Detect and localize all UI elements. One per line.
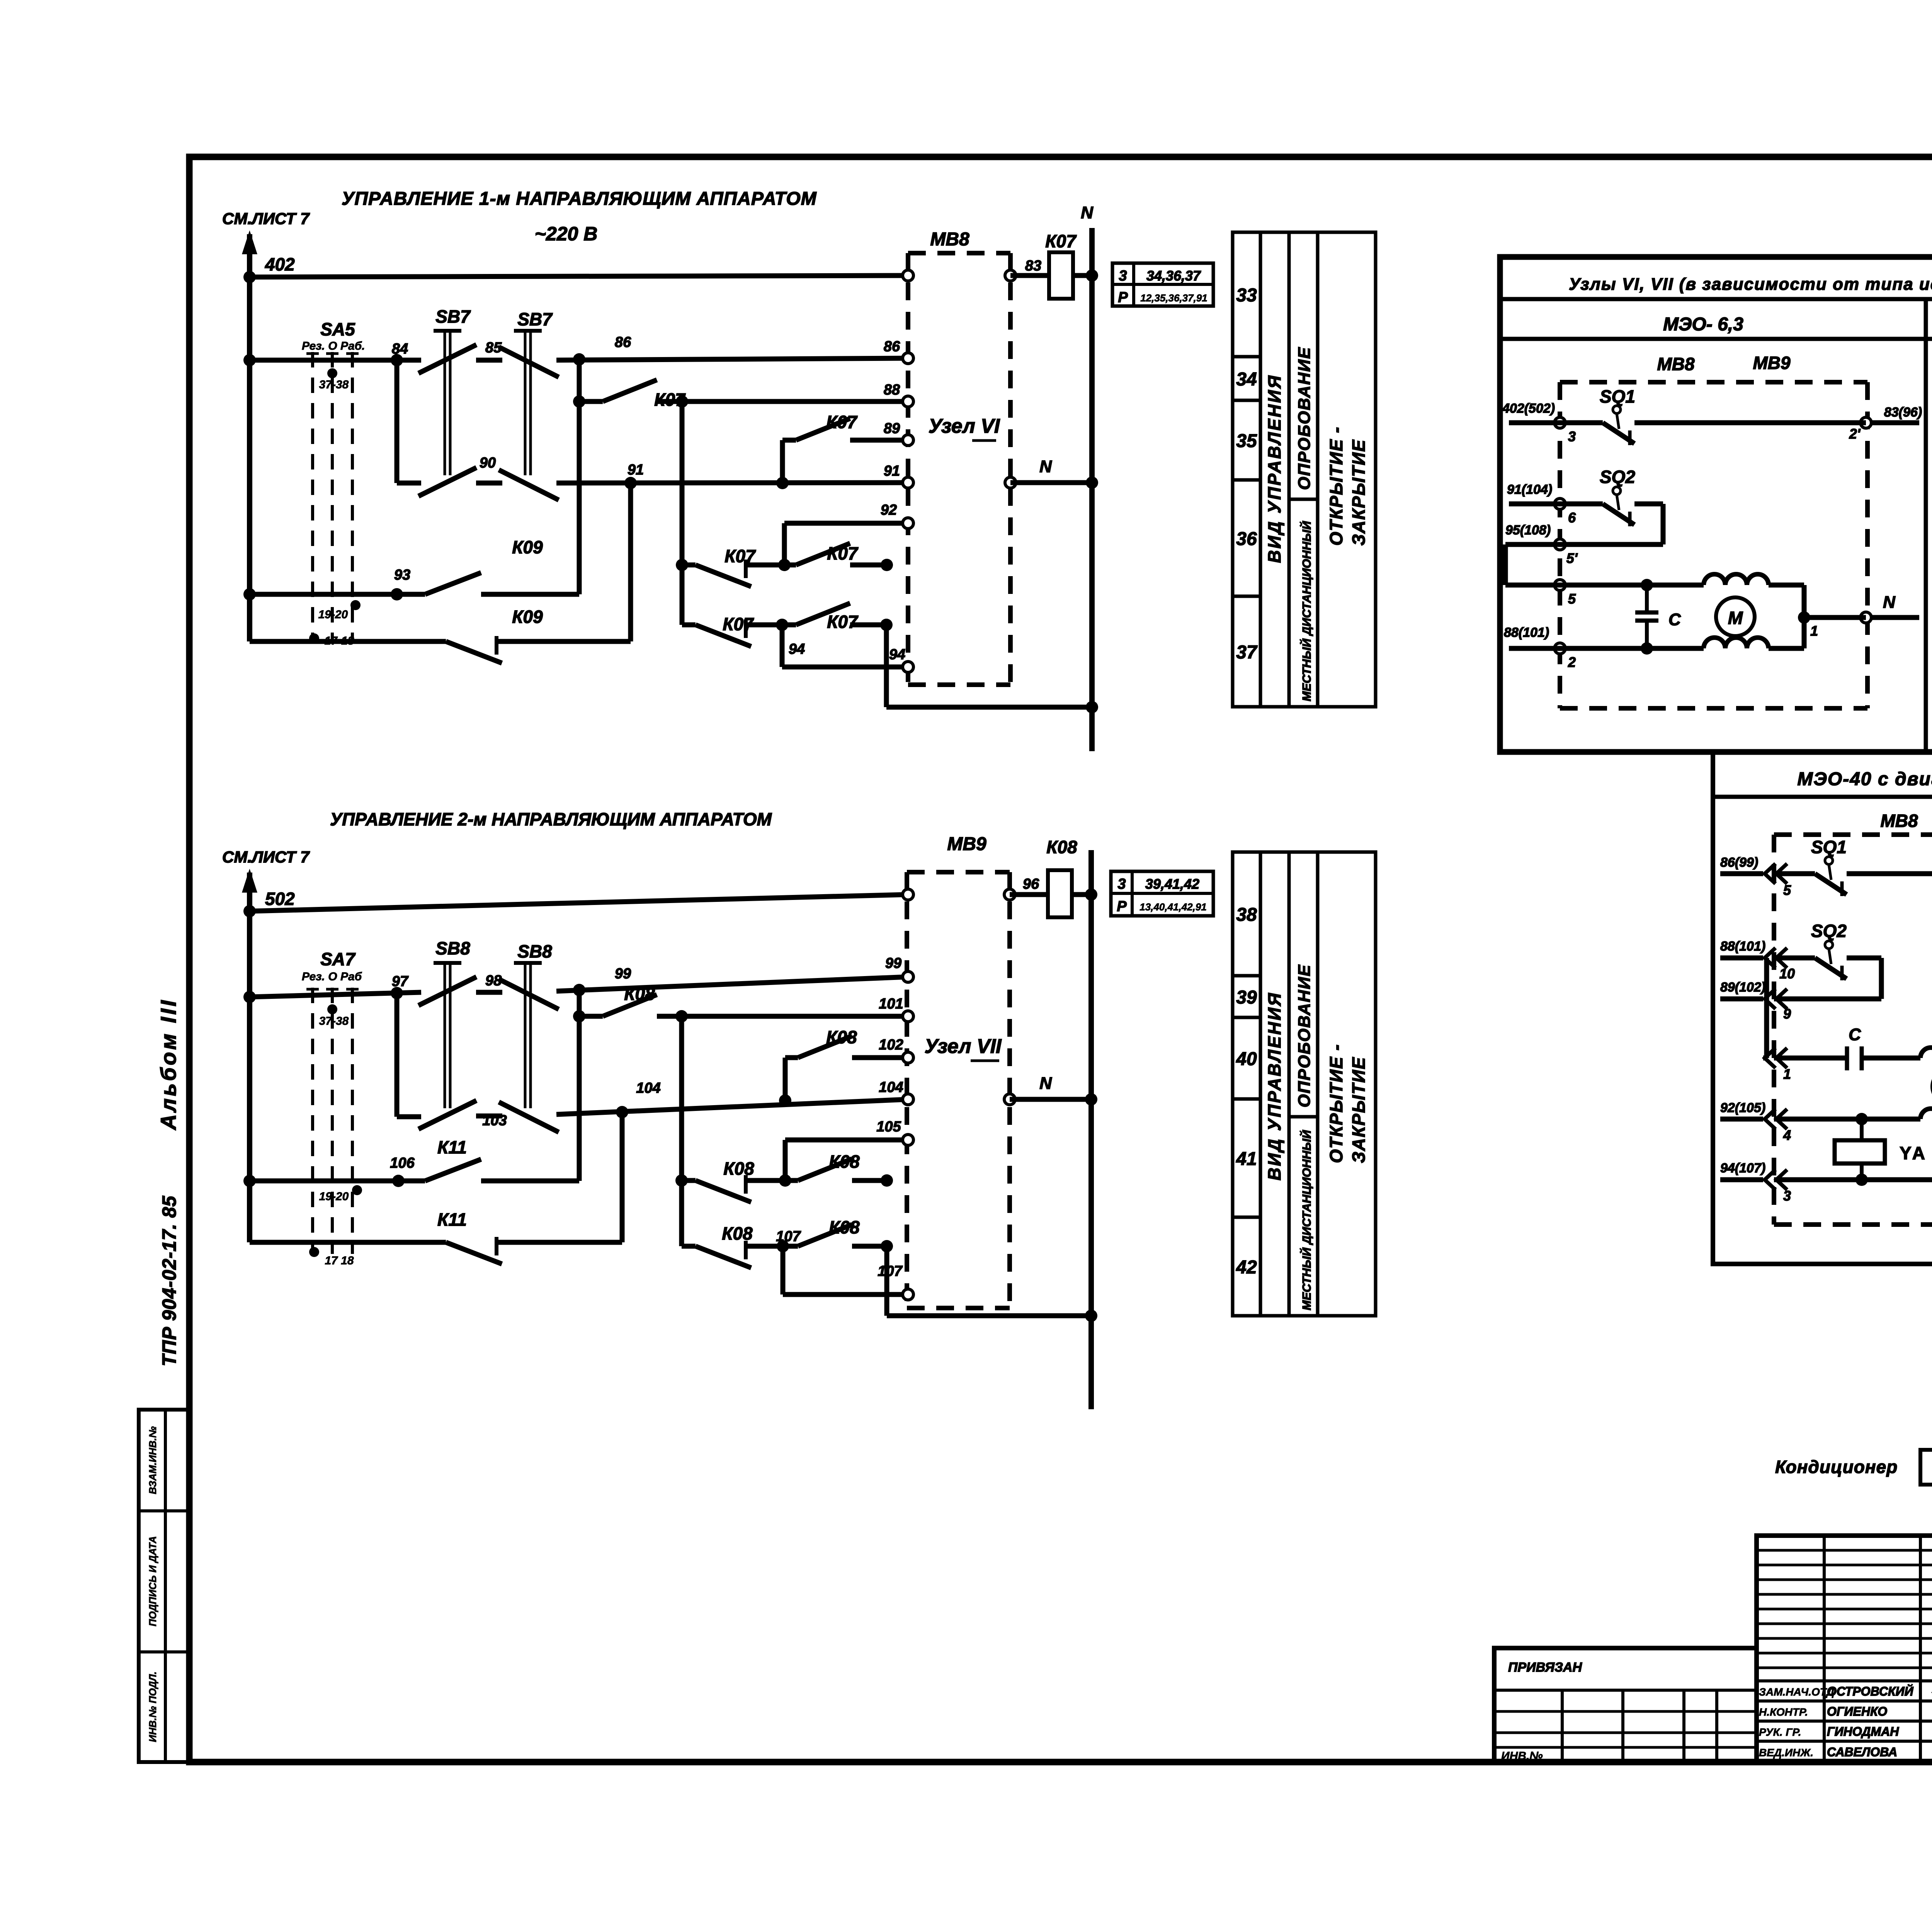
svg-text:К09: К09 [512, 537, 543, 557]
svg-text:YA: YA [1900, 1143, 1927, 1163]
svg-text:Узлы VI, VII (в зависимости: Узлы VI, VII (в зависимости от типа испо… [1569, 275, 1932, 294]
row F 93 contact K09 [250, 592, 425, 597]
N row from box 2 [1010, 1097, 1091, 1102]
svg-text:СМ.ЛИСТ 7: СМ.ЛИСТ 7 [222, 848, 310, 866]
bottom rail to N bus [886, 705, 1092, 710]
svg-text:86: 86 [615, 334, 631, 350]
svg-text:К11: К11 [437, 1209, 467, 1230]
svg-text:Р: Р [1117, 898, 1127, 915]
svg-text:К08: К08 [723, 1158, 754, 1179]
svg-text:4: 4 [1783, 1127, 1791, 1143]
svg-text:ЗАКРЫТИЕ: ЗАКРЫТИЕ [1349, 439, 1369, 546]
feeder bus arrow up [247, 234, 252, 641]
svg-text:102: 102 [879, 1037, 903, 1053]
svg-text:МВ9: МВ9 [947, 834, 986, 854]
svg-text:94(107): 94(107) [1720, 1161, 1765, 1175]
row C2 101: contact K08 [579, 1014, 603, 1019]
wire row B 84-85-86 [250, 358, 421, 363]
wire row B2 97-98-99 [250, 992, 421, 997]
svg-text:С: С [1849, 1025, 1861, 1044]
svg-text:33: 33 [1236, 285, 1257, 306]
svg-text:1: 1 [1783, 1066, 1791, 1082]
svg-text:99: 99 [885, 955, 901, 971]
svg-text:103: 103 [482, 1112, 507, 1129]
svg-text:2: 2 [1568, 654, 1576, 670]
svg-text:3: 3 [1119, 268, 1127, 284]
svg-text:104: 104 [879, 1079, 903, 1095]
svg-text:Н.КОНТР.: Н.КОНТР. [1759, 1706, 1808, 1718]
svg-text:ОСТРОВСКИЙ: ОСТРОВСКИЙ [1827, 1684, 1914, 1698]
svg-text:К09: К09 [512, 607, 543, 627]
limit switch SQ1 cell1 [1560, 420, 1603, 425]
svg-text:N: N [1081, 203, 1094, 222]
feeder bus arrow up 2 [247, 873, 252, 1242]
svg-text:~220 В: ~220 В [535, 223, 598, 245]
svg-text:39: 39 [1236, 987, 1257, 1008]
svg-text:SB8: SB8 [435, 938, 470, 958]
limit switch SQ2 cell1 [1560, 502, 1603, 507]
svg-text:МВ8: МВ8 [1880, 811, 1918, 831]
big box Uzly VI VII [1500, 257, 1932, 752]
Konditsioner empty box [1920, 1450, 1932, 1485]
svg-text:МВ9: МВ9 [1753, 353, 1791, 373]
svg-text:Рез. О Раб.: Рез. О Раб. [302, 340, 365, 352]
signal table column frame [1233, 852, 1260, 1316]
svg-text:ВЕД.ИНЖ.: ВЕД.ИНЖ. [1759, 1747, 1813, 1759]
DAU row 94 [1774, 1177, 1932, 1182]
svg-text:ПОДПИСЬ И ДАТА: ПОДПИСЬ И ДАТА [147, 1536, 158, 1626]
DAU dashed unit box [1774, 832, 1932, 837]
N bus schematic 2 [1088, 850, 1094, 1409]
svg-text:101: 101 [879, 996, 903, 1012]
wire to N cell1 [1804, 615, 1866, 620]
svg-text:10: 10 [1779, 966, 1795, 981]
row E2 103/104 [397, 1114, 421, 1119]
svg-text:Узел VI: Узел VI [929, 415, 1000, 437]
svg-text:К08: К08 [722, 1223, 753, 1243]
svg-text:ОПРОБОВАНИЕ: ОПРОБОВАНИЕ [1295, 964, 1314, 1107]
svg-text:105: 105 [876, 1119, 901, 1135]
svg-text:Узел VII: Узел VII [924, 1035, 1002, 1058]
svg-text:К08: К08 [1046, 837, 1077, 857]
svg-text:107: 107 [776, 1228, 801, 1245]
svg-text:42: 42 [1236, 1257, 1257, 1278]
svg-text:SQ1: SQ1 [1600, 386, 1635, 407]
svg-text:92(105): 92(105) [1720, 1101, 1765, 1115]
drop to bottom rail 2 [884, 1246, 889, 1316]
SQ2 loop to 5prime [1634, 502, 1663, 507]
svg-text:19-20: 19-20 [318, 608, 348, 621]
drop 88 junction to lower ladder [680, 401, 685, 625]
row 5 with upper winding [1560, 583, 1704, 588]
svg-text:86(99): 86(99) [1720, 855, 1758, 870]
svg-text:ВИД УПРАВЛЕНИЯ: ВИД УПРАВЛЕНИЯ [1264, 374, 1284, 563]
svg-text:УПРАВЛЕНИЕ 1-м НАПРАВЛЯЮЩИМ: УПРАВЛЕНИЕ 1-м НАПРАВЛЯЮЩИМ АППАРАТОМ [342, 189, 817, 209]
svg-text:94: 94 [789, 641, 805, 657]
svg-text:6: 6 [1568, 510, 1576, 526]
svg-text:88(101): 88(101) [1504, 625, 1549, 640]
svg-text:ОПРОБОВАНИЕ: ОПРОБОВАНИЕ [1295, 347, 1314, 490]
svg-text:РУК. ГР.: РУК. ГР. [1759, 1726, 1801, 1738]
subdivision line in probe column [1289, 1115, 1318, 1119]
svg-text:502: 502 [265, 889, 295, 909]
svg-text:93: 93 [394, 567, 410, 583]
svg-text:5: 5 [1568, 591, 1576, 607]
svg-text:13,40,41,42,91: 13,40,41,42,91 [1139, 901, 1207, 913]
svg-text:17-18: 17-18 [325, 634, 354, 647]
external U 5prime to 5 [1505, 542, 1560, 547]
svg-text:САВЕЛОВА: САВЕЛОВА [1827, 1745, 1897, 1759]
svg-text:107: 107 [878, 1263, 903, 1279]
svg-text:2': 2' [1849, 426, 1861, 442]
svg-text:37-38: 37-38 [319, 378, 349, 391]
svg-text:92: 92 [881, 502, 897, 518]
drop to bottom rail [884, 625, 889, 707]
svg-text:94: 94 [889, 646, 905, 663]
svg-text:3: 3 [1783, 1188, 1791, 1204]
svg-text:91: 91 [884, 463, 900, 479]
svg-text:С: С [1668, 610, 1681, 629]
svg-text:35: 35 [1236, 431, 1257, 451]
wire 105 to box [785, 1138, 908, 1143]
svg-text:104: 104 [636, 1080, 660, 1096]
drop 101 junction to lower ladder 2 [679, 1016, 684, 1246]
svg-text:SA7: SA7 [320, 949, 356, 969]
svg-text:ГИНОДМАН: ГИНОДМАН [1827, 1725, 1899, 1738]
svg-text:91(104): 91(104) [1507, 482, 1552, 497]
title block [1757, 1536, 1932, 1762]
svg-text:89: 89 [884, 420, 900, 437]
row I2 107 contacts [682, 1244, 696, 1249]
svg-text:К07: К07 [827, 612, 859, 632]
svg-text:3: 3 [1568, 429, 1576, 444]
capacitor C cell1 [1645, 585, 1649, 612]
svg-text:ВЗАМ.ИНВ.№: ВЗАМ.ИНВ.№ [147, 1426, 158, 1494]
19-20 mark 2 [352, 1185, 362, 1195]
svg-text:Р: Р [1118, 289, 1128, 306]
DAU terminals left [1776, 864, 1787, 884]
subdivision line in probe column [1289, 498, 1318, 501]
svg-text:Рез. О Раб: Рез. О Раб [302, 970, 362, 983]
left margin stamp boxes [139, 1410, 189, 1762]
svg-text:SQ2: SQ2 [1600, 467, 1635, 487]
drawing frame border [189, 157, 1932, 1762]
svg-text:99: 99 [615, 966, 631, 982]
terminals MEO-6,3 [1554, 417, 1565, 428]
svg-text:N: N [1883, 593, 1896, 612]
wire drop 97 to row E2 [395, 993, 400, 1117]
wire 92 to box [784, 521, 908, 526]
19-20 mark [350, 600, 361, 610]
svg-text:SB7: SB7 [517, 309, 553, 329]
row H2 105 contacts K08 K08 [675, 1174, 688, 1187]
svg-text:ЗАМ.НАЧ.ОТД: ЗАМ.НАЧ.ОТД [1759, 1686, 1834, 1698]
YA brake solenoid [1835, 1140, 1885, 1163]
svg-text:36: 36 [1236, 529, 1257, 549]
svg-text:МВ8: МВ8 [930, 229, 969, 250]
svg-text:SB8: SB8 [517, 941, 552, 961]
motor M cell1 [1716, 597, 1755, 636]
svg-text:К11: К11 [437, 1137, 467, 1157]
svg-text:40: 40 [1236, 1049, 1257, 1070]
svg-text:ОГИЕНКО: ОГИЕНКО [1827, 1704, 1887, 1718]
svg-text:ОТКРЫТИЕ -: ОТКРЫТИЕ - [1326, 426, 1346, 546]
svg-text:3: 3 [1117, 876, 1126, 892]
svg-text:34,36,37: 34,36,37 [1146, 268, 1201, 284]
svg-text:96: 96 [1023, 876, 1039, 892]
DAU SQ1 row [1774, 871, 1815, 876]
svg-text:38: 38 [1236, 905, 1257, 925]
MEO-40 DAU box [1713, 752, 1932, 1264]
wire drop 84 to row E [395, 360, 400, 483]
MB8 terminals [903, 270, 913, 281]
svg-text:83: 83 [1025, 258, 1041, 274]
signal table column frame [1233, 232, 1260, 707]
row E 90/91 [397, 481, 421, 486]
svg-text:91: 91 [628, 462, 644, 478]
svg-text:88(101): 88(101) [1720, 939, 1765, 954]
SQ2 loop to 9 DAU [1847, 956, 1881, 961]
svg-text:N: N [1039, 457, 1052, 476]
svg-text:ПРИВЯЗАН: ПРИВЯЗАН [1508, 1660, 1582, 1675]
svg-text:41: 41 [1236, 1149, 1257, 1169]
svg-text:МЕСТНЫЙ ДИСТАНЦИОННЫЙ: МЕСТНЫЙ ДИСТАНЦИОННЫЙ [1299, 521, 1313, 701]
svg-text:SA5: SA5 [320, 319, 355, 339]
DAU row 92 with winding [1774, 1117, 1920, 1122]
row C 88: contact K07 [579, 399, 603, 404]
wire drop 99 to row F2 [577, 990, 582, 1181]
svg-text:ТПР 904-02-17. 85: ТПР 904-02-17. 85 [158, 1196, 180, 1366]
N row from box [1010, 480, 1092, 485]
svg-text:83(96): 83(96) [1884, 405, 1922, 420]
svg-text:ОТКРЫТИЕ -: ОТКРЫТИЕ - [1326, 1044, 1346, 1163]
svg-text:37-38: 37-38 [319, 1015, 349, 1027]
svg-text:ИНВ.№ ПОДЛ.: ИНВ.№ ПОДЛ. [147, 1672, 158, 1742]
svg-text:9: 9 [1783, 1006, 1791, 1022]
svg-text:МЭО-40 с двигателем ДАУ: МЭО-40 с двигателем ДАУ [1797, 769, 1932, 789]
svg-text:МЕСТНЫЙ ДИСТАНЦИОННЫЙ: МЕСТНЫЙ ДИСТАНЦИОННЫЙ [1299, 1130, 1313, 1310]
svg-text:СМ.ЛИСТ 7: СМ.ЛИСТ 7 [222, 209, 310, 228]
svg-text:SB7: SB7 [435, 306, 471, 327]
row 2 with lower winding [1560, 646, 1704, 651]
svg-text:К07: К07 [1045, 231, 1077, 251]
row H 92 contacts K07 K07 [676, 559, 688, 571]
svg-text:37: 37 [1236, 642, 1258, 663]
svg-text:86: 86 [884, 338, 900, 355]
row G contact K09 17-18 [250, 639, 446, 644]
row I 94 contacts [682, 623, 696, 628]
svg-text:95(108): 95(108) [1505, 523, 1551, 538]
row G2 contact K11 17-18 [250, 1240, 446, 1245]
svg-text:34: 34 [1236, 369, 1257, 390]
DAU SQ2 row [1774, 956, 1815, 961]
wire drop 86 to row F [577, 359, 582, 594]
svg-text:12,35,36,37,91: 12,35,36,37,91 [1140, 292, 1207, 304]
svg-text:ИНВ.№: ИНВ.№ [1501, 1750, 1543, 1762]
bottom rail 2 to N bus [887, 1313, 1091, 1318]
svg-text:402(502): 402(502) [1502, 401, 1555, 416]
svg-text:106: 106 [390, 1155, 415, 1171]
svg-text:УПРАВЛЕНИЕ 2-м НАПРАВЛЯЮЩИМ: УПРАВЛЕНИЕ 2-м НАПРАВЛЯЮЩИМ АППАРАТОМ [330, 809, 772, 829]
svg-text:89(102): 89(102) [1720, 980, 1765, 995]
svg-text:5: 5 [1783, 882, 1791, 898]
svg-text:Кондиционер: Кондиционер [1775, 1457, 1898, 1477]
svg-text:5': 5' [1566, 550, 1578, 566]
wire 94 to box [780, 625, 785, 667]
wire 107 to box [781, 1246, 786, 1294]
svg-text:19-20: 19-20 [319, 1190, 349, 1203]
MB9 terminals [903, 889, 913, 900]
DAU row 1: cap + winding to N [1774, 1056, 1847, 1061]
ZR info box 2 [1111, 871, 1213, 916]
wire 402 row [250, 276, 908, 277]
svg-text:Альбом III: Альбом III [156, 998, 180, 1131]
svg-text:402: 402 [265, 254, 295, 274]
ZR info box 1 [1112, 263, 1213, 306]
svg-text:39,41,42: 39,41,42 [1145, 876, 1199, 892]
wire 502 row [250, 895, 908, 911]
svg-text:88: 88 [884, 382, 900, 398]
svg-text:SQ2: SQ2 [1811, 921, 1847, 941]
svg-text:N: N [1039, 1074, 1052, 1093]
svg-text:МВ8: МВ8 [1657, 354, 1695, 374]
svg-text:SQ1: SQ1 [1811, 837, 1847, 857]
svg-text:97: 97 [392, 973, 409, 990]
svg-text:17 18: 17 18 [325, 1254, 354, 1267]
svg-text:М: М [1728, 608, 1743, 628]
svg-text:1: 1 [1810, 623, 1818, 639]
svg-text:ВИД УПРАВЛЕНИЯ: ВИД УПРАВЛЕНИЯ [1264, 992, 1284, 1180]
svg-text:МЭО- 6,3: МЭО- 6,3 [1663, 314, 1743, 335]
svg-text:ЗАКРЫТИЕ: ЗАКРЫТИЕ [1349, 1056, 1369, 1163]
svg-text:90: 90 [480, 455, 496, 471]
row F2 106 contact K11 [250, 1179, 425, 1184]
external drop 88 to 1 [1764, 958, 1769, 1058]
